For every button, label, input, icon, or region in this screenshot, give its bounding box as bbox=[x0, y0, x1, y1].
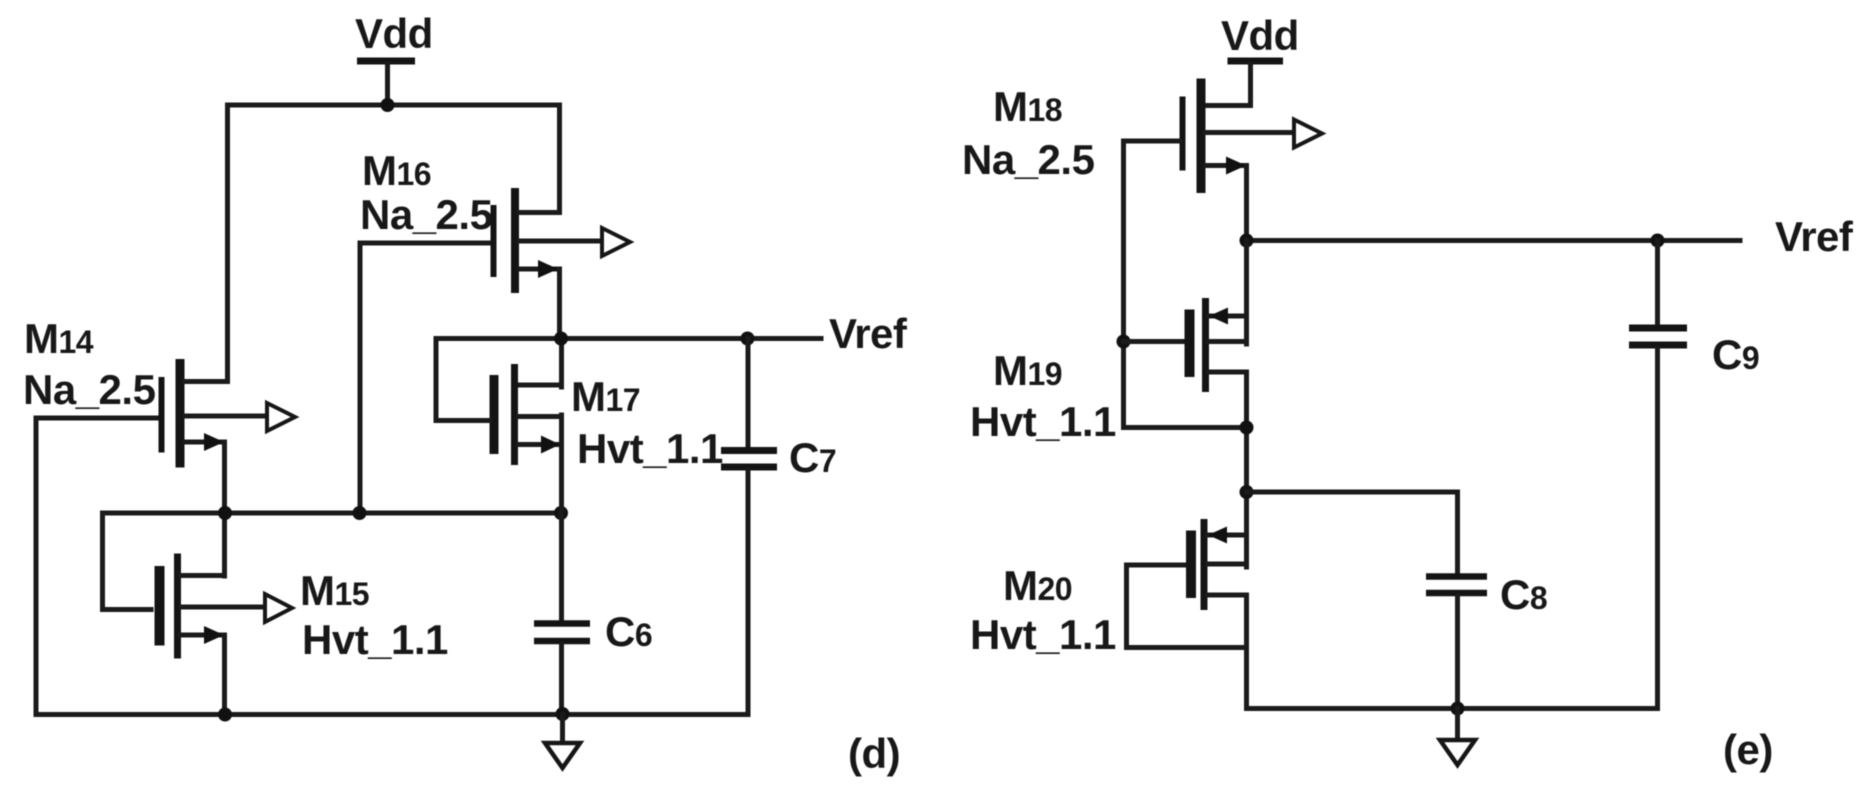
node mid rail / M14-M15 bbox=[218, 506, 232, 520]
wire rail right drop to M16 drain bbox=[557, 105, 562, 213]
svg-text:Vdd: Vdd bbox=[355, 10, 433, 57]
capacitor C9 bbox=[1629, 241, 1687, 709]
wire Vref (d) bbox=[436, 336, 821, 341]
node Vref / C7 bbox=[741, 332, 755, 346]
node ground rail / C6 bbox=[556, 707, 570, 721]
wire Vref (e) bbox=[1247, 238, 1741, 243]
power Vdd (e) symbol bbox=[1228, 61, 1284, 106]
wire M16 gate drop to mid rail bbox=[358, 243, 363, 513]
wire C8 branch bbox=[1247, 490, 1458, 495]
ground (d) bbox=[545, 715, 580, 769]
svg-text:Hvt_1.1: Hvt_1.1 bbox=[302, 616, 448, 663]
transistor M15 bbox=[160, 554, 293, 715]
svg-text:Na_2.5: Na_2.5 bbox=[962, 136, 1095, 183]
svg-text:Vref: Vref bbox=[829, 310, 908, 357]
wire M19 gate-source loop bbox=[1124, 425, 1247, 430]
wire ground rail (d) bbox=[36, 712, 748, 717]
wire mid rail (d) bbox=[103, 511, 562, 516]
svg-text:(d): (d) bbox=[848, 730, 900, 777]
node mid rail / M17 source bbox=[554, 506, 568, 520]
capacitor C8 bbox=[1426, 492, 1487, 709]
svg-text:(e): (e) bbox=[1723, 726, 1773, 773]
svg-text:Vdd: Vdd bbox=[1221, 12, 1299, 59]
svg-text:Hvt_1.1: Hvt_1.1 bbox=[577, 425, 723, 472]
node Vref / M18 source bbox=[1240, 234, 1254, 248]
wire mid rail loop to M15 gate bbox=[103, 513, 152, 610]
node gate chain / M19 gate bbox=[1117, 335, 1131, 349]
svg-text:Vref: Vref bbox=[1775, 213, 1854, 260]
svg-text:Hvt_1.1: Hvt_1.1 bbox=[970, 611, 1116, 658]
wire top rail (d) bbox=[228, 103, 560, 108]
wire rail left drop to M14 drain bbox=[225, 105, 230, 382]
node Vref / C9 bbox=[1651, 234, 1665, 248]
wire gate chain vertical (e) bbox=[1121, 141, 1126, 428]
node mid rail / M16 gate bbox=[353, 506, 367, 520]
capacitor C6 bbox=[534, 624, 590, 715]
wire M20 gate-source loop bbox=[1127, 565, 1247, 648]
node C8 branch bbox=[1240, 485, 1254, 499]
power Vdd (d) symbol bbox=[357, 61, 415, 105]
transistor M14 bbox=[36, 359, 295, 576]
wire M14 gate left drop bbox=[34, 418, 39, 715]
node ground rail / C8 bbox=[1451, 702, 1465, 716]
transistor M19 bbox=[1124, 241, 1247, 568]
transistor M18 bbox=[1124, 79, 1323, 241]
wire ground rail (e) bbox=[1247, 706, 1658, 711]
node Vdd rail junction (d) bbox=[381, 98, 395, 112]
svg-text:Na_2.5: Na_2.5 bbox=[360, 191, 493, 238]
node loop / source column bbox=[1240, 421, 1254, 435]
node ground rail / M14-M15 bbox=[218, 708, 232, 722]
svg-text:Hvt_1.1: Hvt_1.1 bbox=[970, 398, 1116, 445]
node Vref / M16-M17 bbox=[554, 332, 568, 346]
capacitor C7 bbox=[721, 339, 777, 715]
transistor M16 bbox=[360, 188, 630, 339]
transistor M20 bbox=[1127, 519, 1247, 709]
ground (e) bbox=[1440, 709, 1475, 766]
svg-text:Na_2.5: Na_2.5 bbox=[23, 366, 156, 413]
transistor M17 bbox=[436, 339, 562, 621]
